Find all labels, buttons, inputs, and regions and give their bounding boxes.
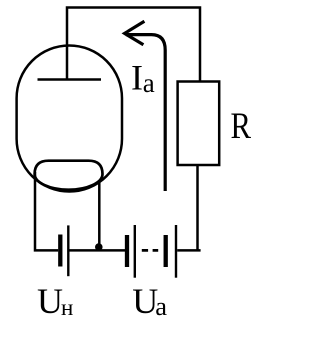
vacuum tube envelope <box>17 46 122 192</box>
battery Ua cell2 negative plate (thick short) <box>164 235 168 267</box>
wire: battery Ua right to resistor bottom <box>177 165 200 250</box>
wire: battery Uн to battery Ua (through junction) <box>70 249 126 252</box>
svg-text:U: U <box>37 281 63 321</box>
wire: anode stem, top wire, drop to resistor <box>67 8 200 82</box>
wire: cathode left leg down and right to battery Uн <box>35 172 58 250</box>
battery Uн positive plate (thin tall) <box>67 225 69 276</box>
resistor R <box>178 82 220 166</box>
battery Ua cell1 negative plate (thick short) <box>125 235 129 267</box>
svg-text:н: н <box>61 295 73 320</box>
anode plate <box>38 78 102 81</box>
dashed wire between battery cells <box>142 249 158 252</box>
cathode <box>35 161 103 190</box>
current arrow Ia shaft <box>126 35 165 191</box>
battery Ua cell1 positive plate (thin tall) <box>134 225 136 278</box>
wire: cathode right leg down to junction <box>98 180 101 247</box>
junction dot <box>95 243 103 251</box>
svg-text:R: R <box>231 105 252 146</box>
current arrow Ia head <box>125 21 145 45</box>
svg-text:I: I <box>131 58 143 98</box>
svg-text:a: a <box>155 291 167 321</box>
svg-text:a: a <box>143 68 155 98</box>
battery Uн negative plate (thick short) <box>58 235 62 267</box>
battery Ua cell2 positive plate (thin tall) <box>175 225 177 278</box>
